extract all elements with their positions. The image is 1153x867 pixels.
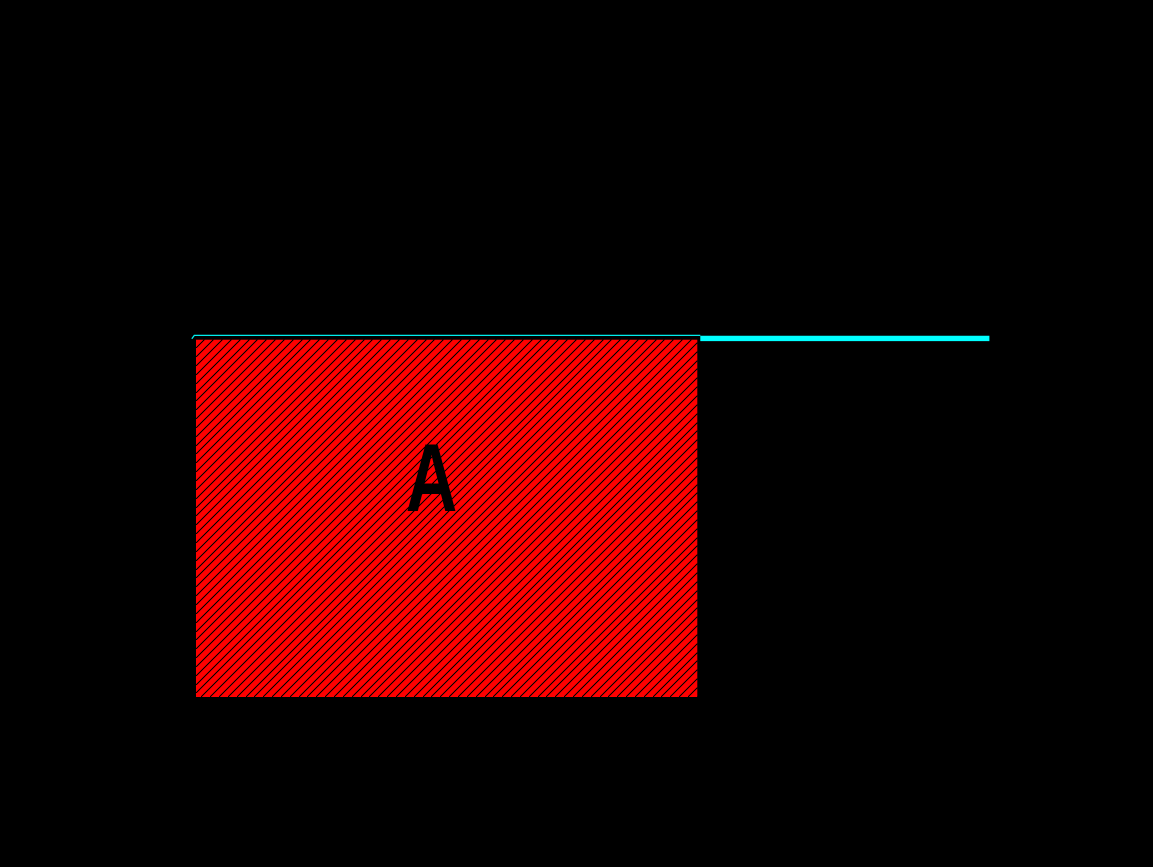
thin cyan line along top of block A [192, 335, 701, 338]
svg-text:A: A [406, 423, 458, 531]
hatch lines of block A [196, 340, 697, 697]
block A (red hatched rectangle) [196, 340, 697, 697]
thick cyan line to the right [700, 336, 989, 341]
